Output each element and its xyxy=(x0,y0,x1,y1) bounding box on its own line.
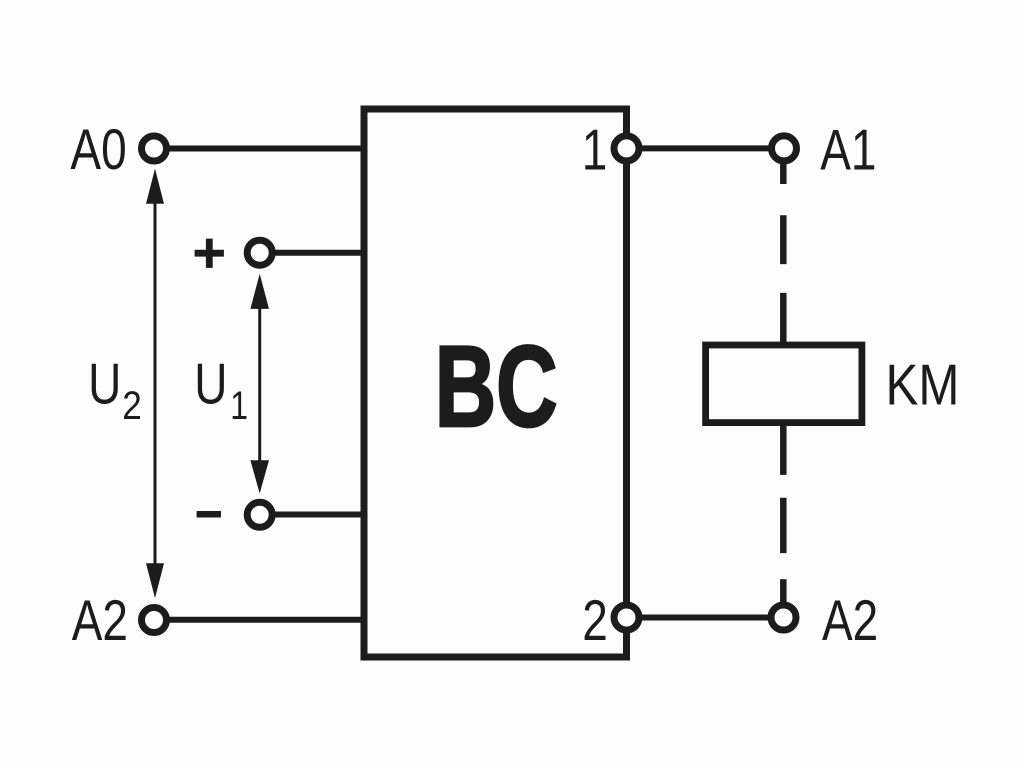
wire plus to box xyxy=(260,250,364,256)
svg-text:A2: A2 xyxy=(822,589,878,653)
plus sign xyxy=(195,239,224,268)
pin label 1 xyxy=(582,119,608,183)
wire pin2 to A2 right xyxy=(627,615,784,621)
svg-text:1: 1 xyxy=(230,383,248,428)
svg-text:BC: BC xyxy=(435,322,558,451)
label BC xyxy=(435,322,558,451)
wire A0 to box xyxy=(154,146,364,152)
pin 2 circle xyxy=(614,605,639,630)
wire minus to box xyxy=(260,512,364,518)
wire A2 left to box xyxy=(154,617,364,623)
minus sign xyxy=(197,511,221,518)
pin label 2 xyxy=(582,589,608,653)
label A0 xyxy=(70,118,126,182)
terminal plus circle xyxy=(247,240,272,265)
svg-text:U: U xyxy=(194,353,227,417)
label A2 right xyxy=(822,589,878,653)
label U2 xyxy=(88,353,121,417)
dashed wire A1 to KM xyxy=(780,164,787,348)
node A1 circle xyxy=(772,136,797,161)
svg-text:A0: A0 xyxy=(70,118,126,182)
svg-text:KM: KM xyxy=(886,354,960,417)
node A2 right circle xyxy=(771,605,796,630)
terminal A2 left circle xyxy=(142,608,167,633)
voltage arrow U1 xyxy=(250,274,269,494)
pin 1 circle xyxy=(614,136,639,161)
label KM xyxy=(886,354,960,417)
wire pin1 to A1 xyxy=(627,145,785,151)
terminal A0 circle xyxy=(142,136,167,161)
svg-text:A2: A2 xyxy=(72,589,128,653)
coil KM rectangle xyxy=(706,345,862,423)
svg-text:1: 1 xyxy=(582,119,608,183)
label U1 xyxy=(194,353,227,417)
svg-text:A1: A1 xyxy=(820,119,876,183)
dashed wire KM to A2 right xyxy=(780,421,787,602)
svg-text:2: 2 xyxy=(582,589,608,653)
svg-text:U: U xyxy=(88,353,121,417)
voltage arrow U2 xyxy=(146,169,164,598)
block BC rectangle xyxy=(364,109,627,657)
svg-text:2: 2 xyxy=(122,383,142,428)
label A2 left xyxy=(72,589,128,653)
terminal minus circle xyxy=(247,502,272,527)
label A1 xyxy=(820,119,876,183)
